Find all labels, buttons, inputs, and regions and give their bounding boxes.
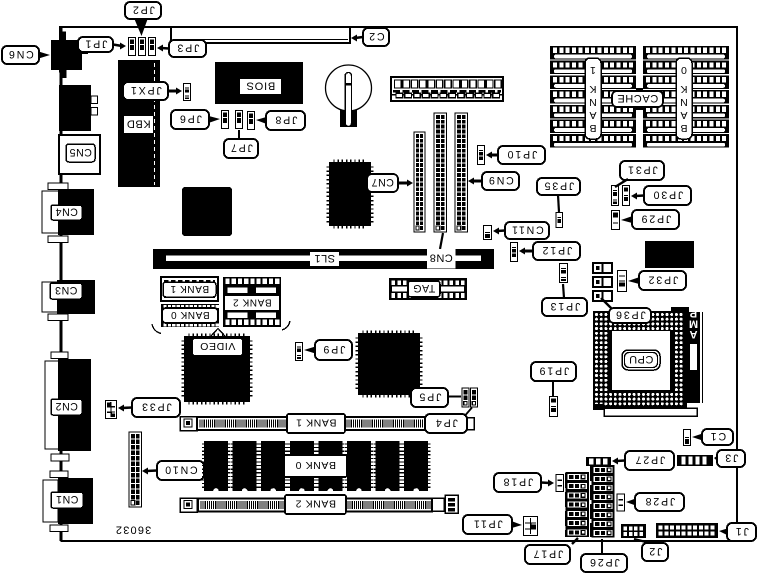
svg-text:JP4: JP4 [434,417,458,429]
svg-text:CACHE: CACHE [617,92,659,104]
svg-text:JP6: JP6 [178,113,202,125]
svg-text:JP13: JP13 [549,300,580,312]
svg-text:CN5: CN5 [69,146,92,158]
svg-text:CN9: CN9 [487,174,514,186]
svg-text:JP10: JP10 [506,148,537,160]
svg-text:J1: J1 [734,525,749,537]
svg-text:BANK 2: BANK 2 [232,296,271,307]
svg-text:BANK 0: BANK 0 [295,459,336,471]
svg-text:JP8: JP8 [274,114,298,126]
svg-text:P: P [690,307,697,319]
svg-text:BIOS: BIOS [246,80,276,92]
svg-text:VIDEO: VIDEO [200,340,236,352]
svg-text:JP35: JP35 [543,180,574,192]
svg-text:JP5: JP5 [418,391,442,403]
svg-text:N: N [589,96,597,108]
svg-text:CN10: CN10 [163,464,197,476]
svg-text:JP18: JP18 [502,476,533,488]
svg-text:JP3: JP3 [176,42,200,54]
svg-text:JP26: JP26 [588,556,619,568]
svg-text:JP36: JP36 [614,309,645,321]
svg-text:JP2: JP2 [131,4,155,16]
svg-text:CN7: CN7 [371,176,394,188]
svg-text:CN1: CN1 [56,493,79,505]
svg-text:CN3: CN3 [55,284,78,296]
svg-text:C2: C2 [367,30,384,42]
svg-text:CN6: CN6 [7,48,34,60]
svg-text:KBD: KBD [126,118,150,130]
svg-text:JP1: JP1 [84,38,108,50]
svg-text:JP17: JP17 [532,548,563,560]
svg-text:SL1: SL1 [314,252,335,264]
svg-text:JP33: JP33 [140,401,171,413]
svg-text:JP28: JP28 [644,495,675,507]
svg-text:B: B [680,122,687,134]
svg-text:JPX1: JPX1 [129,84,162,96]
svg-text:JP27: JP27 [634,454,665,466]
svg-text:A: A [680,109,687,121]
svg-text:TAG: TAG [413,282,436,294]
svg-text:36032: 36032 [115,524,152,536]
svg-text:JP30: JP30 [652,189,683,201]
svg-text:J2: J2 [648,545,663,557]
svg-text:A: A [589,109,596,121]
svg-text:N: N [680,96,688,108]
svg-text:JP11: JP11 [472,518,503,530]
svg-text:CN11: CN11 [510,224,544,236]
svg-text:JP32: JP32 [647,274,678,286]
svg-text:K: K [589,83,596,95]
svg-text:BANK 0: BANK 0 [170,309,209,320]
svg-text:K: K [680,83,687,95]
svg-text:BANK 1: BANK 1 [296,417,337,429]
svg-text:CN2: CN2 [55,400,78,412]
svg-text:B: B [589,122,596,134]
svg-text:BANK 2: BANK 2 [295,498,336,510]
svg-text:CN8: CN8 [429,252,453,264]
svg-text:JP9: JP9 [322,343,346,355]
svg-text:JP19: JP19 [538,365,569,377]
svg-text:JP7: JP7 [229,142,253,154]
svg-text:1: 1 [590,64,596,76]
svg-text:JP12: JP12 [541,244,572,256]
svg-text:J3: J3 [724,452,739,464]
svg-text:BANK 1: BANK 1 [170,283,209,294]
svg-text:JP31: JP31 [626,164,657,176]
svg-text:C1: C1 [709,430,726,442]
svg-text:CPU: CPU [629,353,654,365]
svg-text:0: 0 [681,64,687,76]
svg-text:JP29: JP29 [640,213,671,225]
svg-text:CN4: CN4 [55,206,78,218]
